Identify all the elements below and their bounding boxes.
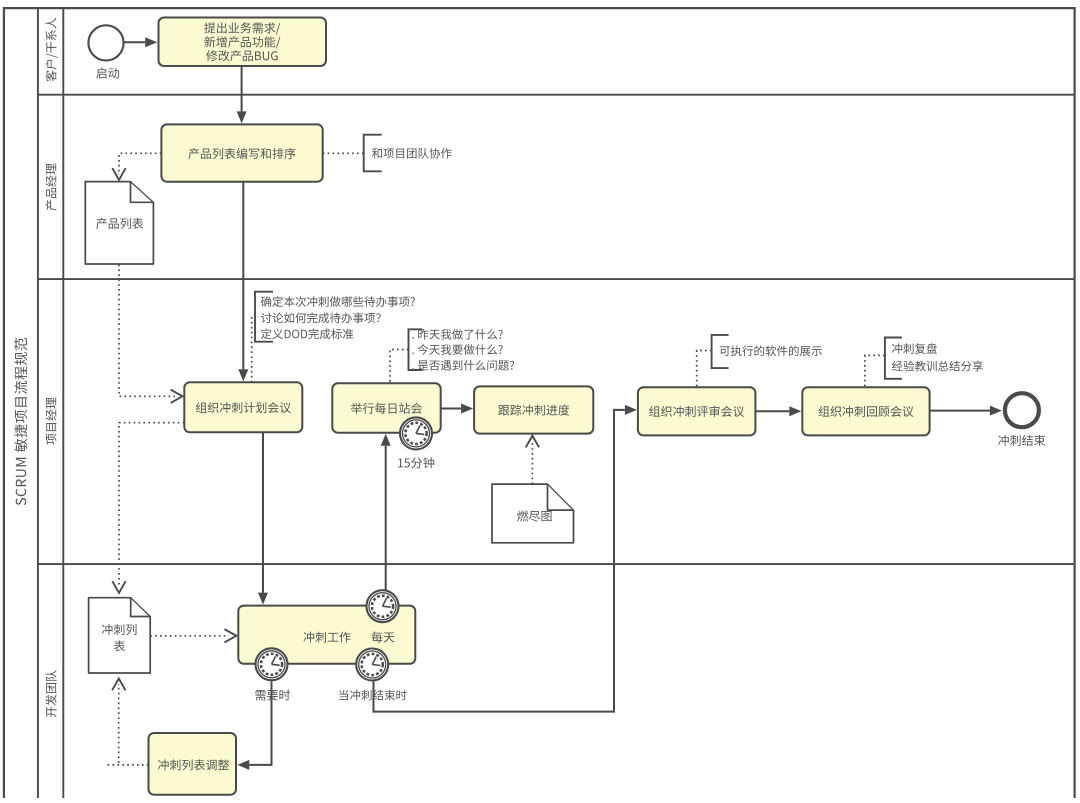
wire 需要时 to 冲刺列表调整: [237, 681, 271, 770]
timer label 需要时: [255, 690, 290, 701]
annotation link task2 right: [323, 152, 364, 154]
lane divider 1: [38, 94, 1075, 96]
data link task3 to doc 冲刺列表: [113, 423, 185, 593]
task3 label: [196, 402, 291, 413]
lane divider 2: [38, 278, 1075, 280]
annotation link 确定本次: [251, 317, 253, 382]
data link 冲刺列表调整 to 冲刺列表: [107, 679, 149, 765]
wire task4 to task5: [441, 404, 473, 414]
lane divider 3: [38, 563, 1075, 565]
task 组织冲刺评审会议: [638, 387, 756, 435]
annotation text 确定本次: [261, 296, 415, 339]
annotation text 昨天: [412, 329, 514, 371]
annotation bracket 和项目团队协作: [364, 135, 382, 172]
task 提出业务需求: [159, 18, 327, 67]
document 产品列表: [85, 182, 153, 264]
timer label 当冲刺结束时: [339, 690, 406, 701]
wire task2 to task 组织冲刺计划会议: [238, 182, 248, 382]
annotation bracket 昨天: [409, 329, 423, 370]
timer 当冲刺结束时: [356, 649, 388, 681]
annotation link 冲刺复盘: [865, 355, 884, 386]
task 跟踪冲刺进度: [474, 386, 593, 433]
wire task1 to task2: [237, 66, 247, 123]
start event label: [96, 68, 119, 79]
wire start to task1: [124, 37, 157, 47]
timer 15分钟: [400, 417, 432, 449]
annotation bracket 冲刺复盘: [885, 338, 902, 379]
timer label 15分钟: [398, 457, 434, 468]
lane label divider: [62, 8, 64, 798]
task7 label: [819, 406, 914, 417]
annotation text 可执行的软件的展示: [720, 345, 822, 356]
data link task2 to doc 产品列表: [113, 153, 162, 180]
document 冲刺列表: [89, 598, 151, 673]
end event label: [998, 435, 1045, 446]
wire 当冲刺结束时 to task6: [374, 405, 637, 712]
annotation link 昨天: [390, 350, 409, 383]
pool title SCRUM 敏捷项目流程规范: [14, 338, 27, 505]
task 组织冲刺计划会议: [184, 382, 302, 432]
task 冲刺列表调整: [149, 733, 237, 795]
annotation bracket 可执行的软件的展示: [712, 335, 729, 368]
wire task7 to end: [930, 406, 1002, 416]
annotation bracket 确定本次: [255, 292, 273, 342]
data link 燃尽图 to task5: [526, 436, 538, 485]
task 举行每日站会: [332, 383, 440, 432]
task 组织冲刺回顾会议: [802, 387, 929, 435]
task 产品列表编写和排序: [161, 124, 322, 181]
lane label 客户/干系人: [45, 18, 57, 82]
document 燃尽图: [492, 484, 574, 543]
wire task3 to 冲刺工作: [258, 432, 268, 604]
data link 冲刺列表 to 冲刺工作: [150, 630, 236, 642]
data link doc to task 组织冲刺计划会议: [119, 265, 183, 403]
task 冲刺工作: [238, 606, 415, 664]
annotation link 可执行: [697, 351, 711, 387]
pool title divider: [37, 8, 39, 798]
lane label 产品经理: [46, 163, 57, 210]
task1 label: [204, 22, 280, 61]
wire task6 to task7: [755, 406, 801, 416]
task9 label 冲刺列表调整: [158, 759, 229, 770]
doc label 冲刺列表: [102, 624, 137, 652]
wire 冲刺工作 clock to task4: [381, 434, 391, 590]
task5 label: [498, 404, 569, 415]
start event 启动: [88, 25, 123, 60]
task2 label: [188, 148, 295, 159]
doc label 燃尽图: [517, 510, 552, 521]
task4 label: [351, 403, 422, 414]
end event 冲刺结束: [1005, 393, 1039, 427]
timer label 每天: [371, 631, 394, 642]
task8 label 冲刺工作: [303, 632, 350, 643]
lane label 项目经理: [46, 397, 57, 444]
task6 label: [649, 406, 744, 417]
annotation text 和项目团队协作: [372, 148, 452, 159]
doc label 产品列表: [96, 218, 143, 229]
timer 每天: [367, 590, 399, 622]
timer 需要时: [256, 648, 288, 680]
annotation text 冲刺复盘: [892, 343, 983, 371]
lane label 开发团队: [45, 670, 56, 717]
